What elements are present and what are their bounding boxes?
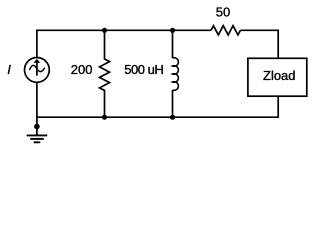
svg-text:Zload: Zload xyxy=(263,68,296,83)
svg-text:200: 200 xyxy=(71,62,93,77)
svg-text:I: I xyxy=(7,62,11,77)
svg-text:500 uH: 500 uH xyxy=(124,62,163,77)
svg-text:50: 50 xyxy=(216,5,230,20)
